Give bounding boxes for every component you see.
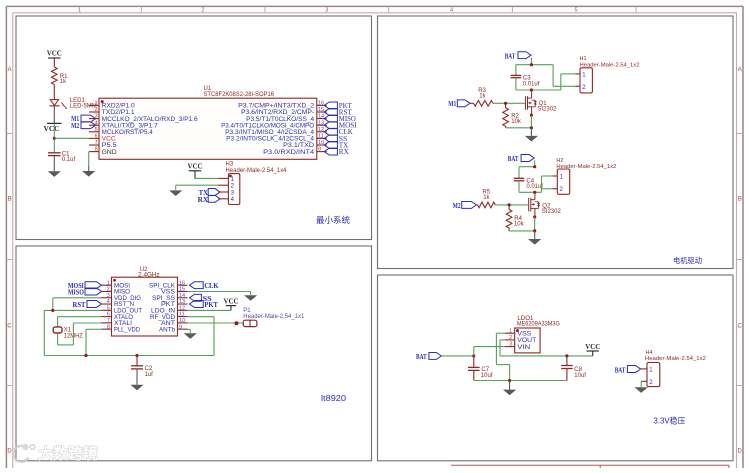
svg-text:6: 6 — [95, 134, 98, 140]
svg-text:8: 8 — [95, 147, 98, 153]
wire R1 to LED1 — [53, 85, 55, 100]
wire junction up to VIN — [474, 347, 505, 356]
wire ANTb to ground — [188, 329, 191, 333]
wire BAT to rail — [516, 58, 553, 65]
svg-text:13: 13 — [179, 299, 185, 305]
svg-text:ANT: ANT — [161, 321, 175, 327]
wire X1 to XTALI — [58, 323, 102, 345]
svg-text:0.1uf: 0.1uf — [62, 157, 76, 163]
svg-text:XTALI/TXD_3/P1.7: XTALI/TXD_3/P1.7 — [102, 123, 159, 129]
svg-text:VDD_DIG: VDD_DIG — [114, 296, 141, 302]
junction source B — [533, 215, 536, 218]
svg-text:lt8920: lt8920 — [321, 394, 347, 403]
port PKT (U2 pin 13) — [190, 301, 219, 309]
svg-text:VCC: VCC — [47, 48, 62, 57]
wire VDD_DIG down-link — [53, 298, 102, 311]
port BAT (LDO input) — [416, 352, 441, 361]
wire XTALO to X1 — [58, 317, 102, 327]
svg-text:6: 6 — [107, 312, 110, 318]
power flag VCC (below LED1) — [44, 123, 62, 133]
svg-text:P3.7/CMP+/INT3/TXD_2: P3.7/CMP+/INT3/TXD_2 — [238, 104, 315, 110]
ground (C2) — [130, 385, 143, 391]
svg-text:VOUT: VOUT — [517, 338, 536, 344]
svg-text:11: 11 — [179, 312, 185, 318]
svg-text:1: 1 — [78, 8, 81, 14]
svg-text:5: 5 — [107, 305, 110, 311]
svg-text:MCLKO/RST/P5.4: MCLKO/RST/P5.4 — [102, 130, 154, 136]
svg-text:12: 12 — [179, 305, 185, 311]
svg-text:16: 16 — [179, 280, 185, 286]
label 电机驱动 — [673, 255, 702, 265]
svg-text:7: 7 — [107, 318, 110, 324]
svg-text:RX: RX — [339, 148, 349, 156]
transistor Q1 SI2302 — [525, 90, 557, 115]
wire H2 pin 2 link — [542, 188, 553, 190]
power flag VCC (U2 LDO_IN) — [224, 297, 239, 311]
port TX (U1 pin 10) — [324, 141, 348, 149]
svg-text:B: B — [738, 197, 742, 203]
svg-text:SI2302: SI2302 — [537, 106, 557, 112]
svg-text:1k: 1k — [60, 79, 67, 85]
svg-text:1: 1 — [107, 280, 110, 286]
svg-text:Header-Male-2.54_1x1: Header-Male-2.54_1x1 — [243, 314, 305, 320]
port M1 (U1 pin 3) — [71, 115, 96, 123]
port M1 (gate) — [448, 100, 470, 108]
label lt8920 — [321, 394, 347, 403]
junction gate A — [504, 102, 507, 105]
svg-text:VCC: VCC — [585, 342, 600, 351]
svg-text:VCC: VCC — [188, 162, 203, 171]
junction BAT rail B — [533, 165, 536, 168]
svg-text:1k: 1k — [483, 195, 490, 201]
ground (U2 ANTb) — [184, 333, 197, 339]
svg-text:P3.4/T0/T1CLKO/MOSI_4/CMPO: P3.4/T0/T1CLKO/MOSI_4/CMPO — [221, 123, 314, 129]
port TX (H3 pin 3) — [199, 189, 220, 198]
ground (LDO) — [503, 381, 516, 396]
module box 电机驱动 — [378, 16, 734, 269]
svg-text:LED-5MM: LED-5MM — [70, 104, 97, 110]
header H1 Header-Male-2.54_1x2 — [575, 56, 639, 93]
svg-text:11: 11 — [318, 134, 324, 140]
junction source-R4 B — [533, 229, 536, 232]
svg-text:最小系统: 最小系统 — [316, 215, 350, 225]
svg-text:15: 15 — [318, 107, 324, 113]
svg-text:电机驱动: 电机驱动 — [673, 255, 702, 265]
MCU U1 STC8F2K08S2-28I-SOP16 — [89, 86, 327, 159]
svg-text:Header-Male-2.54_1x4: Header-Male-2.54_1x4 — [226, 168, 288, 174]
wire BAT rail to H1 pin 2 — [553, 65, 575, 87]
svg-text:BAT: BAT — [416, 353, 427, 361]
port M2 (U1 pin 4) — [71, 122, 96, 130]
wire ANT to P1 — [188, 322, 244, 324]
svg-text:3: 3 — [107, 293, 110, 299]
svg-text:大数跨境: 大数跨境 — [38, 445, 98, 463]
svg-text:P3.5/T1/T0CLKO/SS_4: P3.5/T1/T0CLKO/SS_4 — [246, 117, 315, 123]
svg-text:SPI_SS: SPI_SS — [152, 296, 175, 302]
port RST (U2 pin 4) — [73, 301, 102, 310]
port CLK (U2 pin 16) — [190, 282, 219, 290]
svg-text:P3.1/TXD: P3.1/TXD — [283, 143, 315, 149]
svg-text:H2: H2 — [556, 158, 563, 164]
wire LED1 to VCC flag — [53, 106, 55, 124]
svg-text:D: D — [738, 449, 743, 455]
svg-text:B: B — [8, 197, 12, 203]
RF module U2 2.4GHz — [102, 267, 188, 336]
wire VCC to H3 pin 1 — [195, 177, 218, 179]
svg-text:SI2302: SI2302 — [542, 209, 562, 215]
svg-text:ANTb: ANTb — [159, 327, 176, 333]
wire C3 to drain rail — [516, 78, 561, 90]
wire H2 pin 1 link — [542, 176, 553, 192]
ground (Q2 source) — [528, 231, 541, 245]
wire VSS to ground — [188, 292, 251, 295]
module box lt8920 — [16, 246, 372, 461]
svg-text:M2: M2 — [71, 122, 79, 130]
wire LDO_OUT to VCC rail — [44, 310, 101, 355]
resistor R2 — [503, 103, 522, 128]
svg-text:P3.2/INT0/SCLK_4/I2CSCL_4: P3.2/INT0/SCLK_4/I2CSCL_4 — [226, 137, 315, 143]
junction source-R2 A — [530, 126, 533, 129]
svg-text:Header-Male-2.54_1x2: Header-Male-2.54_1x2 — [645, 356, 706, 362]
transistor Q2 SI2302 — [529, 192, 562, 217]
svg-text:10k: 10k — [511, 119, 522, 125]
junction source A — [530, 114, 533, 117]
svg-text:0.01uf: 0.01uf — [526, 184, 543, 190]
ground (U1 GND) — [82, 166, 95, 177]
port M2 (gate) — [453, 201, 477, 209]
svg-text:BAT: BAT — [508, 155, 519, 163]
junction BAT/C7 — [472, 354, 475, 357]
port BAT (Q1 cell) — [505, 52, 531, 61]
svg-text:TXD2/P1.1: TXD2/P1.1 — [102, 110, 136, 116]
svg-text:1: 1 — [95, 101, 98, 107]
wire drain rail to H1 pin 1 — [561, 74, 575, 90]
svg-text:15: 15 — [179, 287, 185, 293]
svg-text:VSS: VSS — [517, 332, 531, 338]
svg-text:2: 2 — [509, 335, 512, 341]
ground (H3 pin 2) — [169, 190, 182, 196]
svg-text:P5.5: P5.5 — [102, 143, 118, 149]
svg-text:RF_VDD: RF_VDD — [150, 315, 176, 321]
svg-text:2: 2 — [201, 8, 204, 14]
crystal X1 12MHZ — [53, 327, 83, 340]
junction VCC rail C8 — [565, 354, 568, 357]
wire R2 to source — [506, 127, 532, 129]
header H4 Header-Male-2.54_1x2 — [641, 350, 706, 387]
port SS (U1 pin 11) — [324, 135, 347, 143]
svg-text:7: 7 — [95, 140, 98, 146]
resistor R1 — [52, 67, 69, 85]
svg-text:RST: RST — [73, 301, 86, 309]
wire R5 to Q2 gate — [495, 204, 528, 206]
svg-text:LDO_OUT: LDO_OUT — [114, 309, 142, 315]
svg-text:P3.6/INT2/RXD_2/CMP-: P3.6/INT2/RXD_2/CMP- — [241, 110, 314, 116]
wire VCC to R1 — [53, 58, 55, 67]
port PKT (U1 pin 16) — [324, 102, 352, 110]
svg-text:4: 4 — [107, 299, 110, 305]
svg-text:MISO: MISO — [114, 290, 130, 296]
wire VCC flag to C1 — [53, 123, 55, 152]
wire VOUT to VCC rail — [500, 340, 593, 356]
svg-text:3: 3 — [325, 8, 328, 14]
junction rail C2 — [135, 354, 138, 357]
svg-text:PKT: PKT — [161, 302, 175, 308]
junction ANT — [235, 321, 239, 325]
svg-text:D: D — [7, 449, 12, 455]
wire VCC rail (bottom) — [44, 355, 214, 357]
capacitor C2 — [131, 366, 153, 378]
wire C1 to ground — [53, 156, 55, 172]
label 3.3V稳压 — [653, 415, 685, 425]
capacitor C3 — [511, 75, 540, 87]
regulator LDO1 ME6209A33M3G — [505, 316, 561, 353]
svg-text:13: 13 — [318, 120, 324, 126]
port BAT (H4) — [615, 366, 641, 375]
port RX (U1 pin 9) — [324, 148, 349, 156]
svg-text:BAT: BAT — [615, 366, 626, 374]
svg-text:3: 3 — [509, 342, 512, 348]
svg-text:2: 2 — [107, 287, 110, 293]
svg-text:10uf: 10uf — [574, 373, 586, 379]
ground (Q1 source) — [525, 128, 538, 142]
port SS (U2 pin 14) — [190, 294, 212, 302]
junction at VCC node — [53, 137, 56, 140]
svg-text:M1: M1 — [448, 100, 456, 108]
junction drain rail B — [533, 191, 536, 194]
LED LED1 — [49, 98, 96, 110]
wire H3 pin 2 to ground — [176, 185, 219, 190]
wire VSS to ground rail — [496, 333, 509, 380]
ground rail (bottom) — [474, 380, 567, 382]
wire BAT rail to C4 — [518, 167, 520, 178]
svg-text:5: 5 — [574, 8, 577, 14]
svg-text:MISO: MISO — [68, 289, 84, 297]
svg-text:VIN: VIN — [517, 345, 530, 351]
port MISO (U2 pin 2) — [68, 288, 102, 296]
svg-text:RXD2/P1.0: RXD2/P1.0 — [102, 104, 136, 110]
port MOSI (U1 pin 13) — [324, 122, 357, 130]
wire R4 to source B — [509, 230, 535, 232]
svg-text:BAT: BAT — [505, 52, 516, 60]
wire RF_VDD to VCC rail — [188, 317, 215, 356]
wire PLL_VDD to VCC rail — [86, 329, 102, 355]
power flag VCC (top of R1) — [47, 48, 62, 58]
wire R3 to Q1 gate — [493, 102, 525, 104]
svg-text:CLK: CLK — [204, 282, 219, 290]
module box 3.3V稳压 — [378, 275, 734, 461]
junction rail PLL_VDD — [84, 354, 87, 357]
resistor R5 — [476, 190, 495, 208]
svg-text:1k: 1k — [479, 94, 486, 100]
module box 最小系统 — [16, 16, 372, 240]
svg-text:PKT: PKT — [204, 301, 218, 309]
port BAT (Q2 cell) — [508, 155, 534, 163]
wire BAT to rail B — [519, 161, 536, 167]
svg-text:XTALO: XTALO — [114, 315, 133, 321]
svg-text:LDO_IN: LDO_IN — [151, 309, 175, 315]
svg-text:A: A — [8, 67, 12, 73]
header H2 Header-Male-2.54_1x2 — [552, 158, 616, 195]
wire C2 to ground — [136, 369, 138, 385]
svg-text:A: A — [738, 67, 742, 73]
svg-text:VSS: VSS — [161, 290, 175, 296]
junction BAT rail A — [530, 63, 533, 66]
svg-text:SPI_CLK: SPI_CLK — [149, 283, 175, 289]
svg-text:2: 2 — [95, 107, 98, 113]
port CLK (U1 pin 12) — [324, 128, 353, 136]
wire LDO_IN to VCC — [188, 309, 232, 311]
resistor R4 — [506, 205, 524, 231]
junction ground rail — [508, 379, 511, 382]
power flag VCC (regulator output) — [585, 342, 600, 356]
svg-text:10uf: 10uf — [481, 373, 493, 379]
svg-text:RX: RX — [198, 196, 209, 204]
ground (below C1) — [48, 171, 61, 177]
svg-text:9: 9 — [179, 324, 182, 330]
ground (H4) — [635, 387, 648, 393]
resistor R3 — [470, 88, 493, 106]
svg-text:VCC: VCC — [44, 124, 60, 133]
svg-text:H3: H3 — [226, 162, 234, 168]
wire H4 pin 2 to ground — [640, 381, 642, 387]
svg-text:ME6209A33M3G: ME6209A33M3G — [517, 322, 560, 328]
wire source to ground A — [530, 115, 532, 128]
wire source to ground B — [534, 217, 536, 231]
svg-text:M2: M2 — [453, 202, 461, 210]
svg-text:10: 10 — [179, 318, 185, 324]
svg-text:PLL_VDD: PLL_VDD — [114, 327, 141, 333]
svg-text:10k: 10k — [514, 221, 525, 227]
wire VCC node to U1 pin 6 — [54, 137, 89, 139]
wire C4 to drain rail B — [519, 181, 542, 193]
svg-text:3.3V稳压: 3.3V稳压 — [653, 415, 685, 425]
svg-text:0.01uf: 0.01uf — [523, 81, 540, 87]
svg-text:C: C — [7, 324, 12, 330]
wire BAT rail to C3 — [515, 65, 517, 76]
power flag VCC (H3) — [188, 162, 203, 179]
svg-text:MOSI: MOSI — [114, 283, 130, 289]
header P1 Header-Male-2.54_1x1 — [243, 308, 305, 327]
svg-text:P1: P1 — [243, 308, 251, 314]
header H3 Header-Male-2.54_1x4 — [218, 162, 287, 205]
wire U1 GND pin to ground — [88, 152, 90, 166]
capacitor C7 — [468, 356, 493, 381]
svg-text:P3.0/RXD/INT4: P3.0/RXD/INT4 — [263, 150, 315, 156]
label 最小系统 — [316, 215, 350, 225]
svg-text:1uf: 1uf — [145, 372, 154, 378]
junction drain rail A — [530, 88, 533, 91]
svg-text:P3.3/INT1/MISO_4/I2CSDA_4: P3.3/INT1/MISO_4/I2CSDA_4 — [225, 130, 315, 136]
svg-text:X1: X1 — [64, 328, 72, 334]
svg-text:XTALI: XTALI — [114, 321, 132, 327]
capacitor C8 — [561, 356, 586, 381]
ground (U2 VSS) — [244, 295, 257, 301]
svg-text:16: 16 — [318, 101, 324, 107]
port MOSI (U2 pin 1) — [68, 282, 102, 290]
wire BAT to VIN junction — [441, 355, 473, 357]
svg-text:C: C — [738, 324, 743, 330]
svg-text:8: 8 — [107, 324, 110, 330]
capacitor C1 — [48, 151, 75, 163]
junction VDD_DIG/LDO_OUT — [51, 309, 54, 312]
svg-text:5: 5 — [95, 127, 98, 133]
watermark 大数跨境 — [13, 445, 98, 463]
svg-text:STC8F2K08S2-28I-SOP16: STC8F2K08S2-28I-SOP16 — [204, 92, 275, 98]
svg-text:C2: C2 — [145, 366, 153, 372]
svg-text:10: 10 — [318, 140, 324, 146]
svg-text:VCC: VCC — [102, 137, 117, 143]
port RX (H3 pin 4) — [198, 195, 220, 204]
svg-text:GND: GND — [102, 150, 118, 156]
svg-text:1: 1 — [509, 328, 512, 334]
svg-text:VCC: VCC — [224, 297, 239, 306]
svg-text:12: 12 — [318, 127, 324, 133]
capacitor C4 — [514, 178, 544, 190]
port MISO (U1 pin 14) — [324, 115, 356, 123]
wire rail to C2 — [136, 356, 138, 366]
svg-text:14: 14 — [318, 114, 324, 120]
junction gate B — [508, 203, 511, 206]
port RST (U1 pin 15) — [324, 108, 352, 116]
svg-text:RST_N: RST_N — [114, 302, 134, 308]
svg-text:14: 14 — [179, 293, 185, 299]
svg-text:H1: H1 — [580, 56, 587, 62]
svg-text:4: 4 — [450, 8, 453, 14]
svg-text:MCCLKO_2/XTALO/RXD_3/P1.6: MCCLKO_2/XTALO/RXD_3/P1.6 — [102, 117, 199, 123]
svg-text:9: 9 — [318, 147, 321, 153]
